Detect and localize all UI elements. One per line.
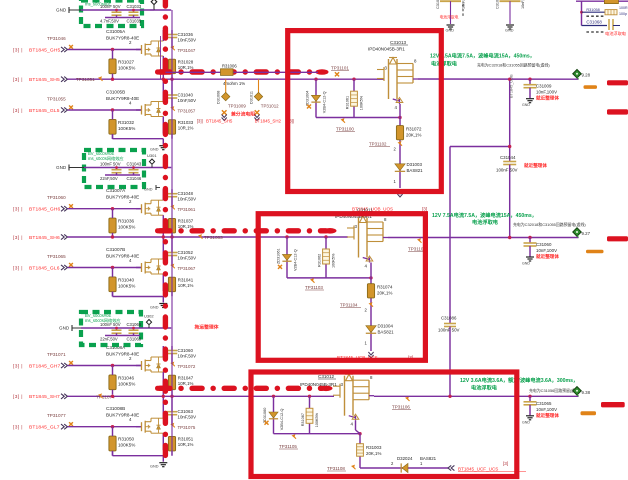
svg-text:V2B4-C12-Q: V2B4-C12-Q <box>294 249 298 271</box>
svg-text:TP31072: TP31072 <box>178 364 196 369</box>
input port chevron BT1845_GH5 <box>61 47 67 52</box>
resistor R31037 <box>168 218 193 233</box>
svg-text:9.27: 9.27 <box>582 231 591 236</box>
transistor C31008B BUK7Y9R8-40E <box>136 418 163 433</box>
svg-text:R31027: R31027 <box>118 60 135 65</box>
net label BT1845_SH6 <box>13 235 60 241</box>
svg-text:ZD31004: ZD31004 <box>306 91 310 107</box>
net label BT1845_GL7 <box>13 425 60 431</box>
wire R31051 to gnd rail <box>171 451 173 456</box>
label C31005A <box>106 29 139 45</box>
wire R31032 stub <box>112 110 114 139</box>
svg-text:TP31100: TP31100 <box>336 127 354 132</box>
svg-text:BUK7Y9R8-40E: BUK7Y9R8-40E <box>106 352 139 357</box>
svg-text:100nF 50V: 100nF 50V <box>100 4 121 9</box>
port marker top <box>151 0 157 10</box>
diode D31004 <box>366 324 394 335</box>
svg-text:[3]|: [3]| <box>197 119 203 124</box>
cap value labels <box>100 19 142 24</box>
test point TP31072 <box>170 362 196 369</box>
svg-text:TP31055: TP31055 <box>47 97 66 102</box>
ground C31065 <box>522 416 534 425</box>
orange highlight bar <box>586 250 604 254</box>
ground C31009 <box>522 99 534 108</box>
test point marker TP31077 <box>69 422 73 426</box>
svg-text:TP31061: TP31061 <box>178 207 196 212</box>
svg-text:10nF,100V: 10nF,100V <box>536 90 557 95</box>
svg-text:C31086: C31086 <box>441 316 457 321</box>
wire FET3 out <box>374 395 579 397</box>
svg-text:BT1845_UCF_UCS: BT1845_UCF_UCS <box>458 467 498 472</box>
svg-text:12V 7.5A电流7.5A，波峰电流15A，450ms，: 12V 7.5A电流7.5A，波峰电流15A，450ms， <box>430 52 535 60</box>
transistor C31005B BUK7Y9R8-40E <box>136 102 163 117</box>
svg-text:C31082: C31082 <box>436 0 440 9</box>
svg-text:10R,1%: 10R,1% <box>178 283 194 288</box>
cap value labels <box>100 337 142 342</box>
test point marker TP31065 <box>69 263 73 267</box>
svg-text:BUK7Y9R8-40E: BUK7Y9R8-40E <box>106 96 139 101</box>
svg-text:电池浮取电: 电池浮取电 <box>605 30 627 37</box>
test point TP31067 <box>170 264 196 271</box>
wire top rail <box>81 327 171 329</box>
svg-text:就近整理体: 就近整理体 <box>524 162 547 169</box>
svg-text:BT1845_GL6: BT1845_GL6 <box>29 265 60 271</box>
svg-text:C31052: C31052 <box>178 250 194 255</box>
svg-text:[3] |: [3] | <box>13 207 23 213</box>
net label BT1845_GH6 <box>13 207 61 213</box>
svg-text:BT1845_GL5: BT1845_GL5 <box>29 108 60 114</box>
svg-text:C31048: C31048 <box>178 191 194 196</box>
svg-text:10R,1%: 10R,1% <box>178 381 194 386</box>
svg-text:TP31077: TP31077 <box>47 413 66 418</box>
svg-text:TP31065: TP31065 <box>47 254 66 259</box>
port chevron box3 out <box>448 465 454 470</box>
ground C31082 <box>446 25 455 33</box>
resistor R31027 <box>109 59 135 74</box>
red note filter <box>605 30 627 37</box>
resistor R31041 <box>168 277 193 292</box>
label C31012 <box>300 374 337 387</box>
resistor R31032 <box>109 119 135 134</box>
input port chevron BT1845_GL6 <box>61 265 67 270</box>
wire BT1845_SH7 <box>68 395 335 397</box>
svg-text:兼分流电阻: 兼分流电阻 <box>230 111 255 118</box>
resistor R31033 <box>168 120 193 135</box>
svg-text:100K5%: 100K5% <box>118 443 135 448</box>
net label BT1845_GL5 <box>13 108 60 114</box>
test point TP31105 <box>279 434 298 449</box>
svg-text:[3]: [3] <box>422 207 427 212</box>
wire filter low <box>582 25 608 27</box>
svg-text:100p: 100p <box>619 12 627 16</box>
junction gate BT1845_GH7 <box>111 364 114 367</box>
svg-text:C31080: C31080 <box>496 0 500 9</box>
svg-text:20K,1%: 20K,1% <box>366 451 381 456</box>
wire FET2 out <box>388 237 579 239</box>
capacitor C31063 <box>167 397 196 425</box>
svg-text:TP31009: TP31009 <box>228 104 246 109</box>
wire R31028 to SH <box>171 74 173 79</box>
red highlight corner blob <box>155 386 169 391</box>
test point TP31061 <box>170 205 196 212</box>
capacitor C31044 <box>496 155 518 238</box>
test point TP31107 <box>408 238 427 251</box>
capacitor C31066 <box>100 322 122 336</box>
svg-text:BAS821: BAS821 <box>378 330 395 335</box>
resistor R31028 <box>168 59 193 73</box>
svg-text:BUK7Y9R8-40E: BUK7Y9R8-40E <box>106 36 139 41</box>
wire box2 lower <box>287 277 371 279</box>
junction dots <box>115 166 135 169</box>
red highlight end blob <box>320 386 333 392</box>
pin 1 label D32024 <box>420 461 423 466</box>
svg-text:D32024: D32024 <box>397 456 413 461</box>
svg-text:10nF,50V: 10nF,50V <box>178 256 197 261</box>
svg-text:C31060: C31060 <box>536 242 552 247</box>
svg-text:10nF,50V: 10nF,50V <box>178 38 197 43</box>
red note shunt <box>230 111 255 118</box>
input port chevron BT1845_GL5 <box>61 107 67 112</box>
svg-text:4.7nF,50V: 4.7nF,50V <box>100 19 119 24</box>
svg-text:D31008: D31008 <box>217 91 221 104</box>
wire gate BT1845_GH7 <box>68 365 142 367</box>
wire R31033 to gnd rail <box>171 134 173 139</box>
resistor R31061 <box>346 79 364 117</box>
svg-text:R31050: R31050 <box>118 437 135 442</box>
wire drain C31005B <box>162 81 164 102</box>
resistor R31051 <box>168 436 193 451</box>
pin 8 label U2 <box>384 217 387 222</box>
svg-text:BAS821: BAS821 <box>420 456 437 461</box>
junction filter <box>580 11 583 14</box>
green note line2 <box>431 60 458 68</box>
wire R31027 stub <box>112 50 114 79</box>
test point label TP31063 <box>204 235 223 240</box>
capacitor C31052 <box>167 238 196 266</box>
svg-text:TP31106: TP31106 <box>392 405 410 410</box>
resistor R31072 <box>396 126 422 140</box>
test point label TP31077 <box>47 413 66 418</box>
svg-text:R31047: R31047 <box>178 376 194 381</box>
dashed note b <box>586 31 605 33</box>
resistor R31074 <box>367 284 393 298</box>
test point TP31075 <box>170 423 196 430</box>
svg-text:10nF,50V: 10nF,50V <box>178 98 197 103</box>
red highlight vertical bus <box>163 0 168 462</box>
svg-text:TP31105: TP31105 <box>279 444 297 449</box>
svg-text:GND: GND <box>522 262 530 266</box>
svg-text:TP31063: TP31063 <box>204 235 223 240</box>
svg-text:BT1845_SH2: BT1845_SH2 <box>255 119 282 124</box>
svg-text:C31009: C31009 <box>536 84 552 89</box>
svg-text:[3] |: [3] | <box>13 108 23 114</box>
wire source C31008A <box>162 372 164 395</box>
capacitor C31060 <box>167 346 196 364</box>
capacitor C31048 <box>167 189 196 207</box>
label C31068 <box>586 19 602 24</box>
svg-text:R31028: R31028 <box>178 60 194 65</box>
svg-text:GND: GND <box>150 306 159 310</box>
wire box1 lower <box>316 117 400 119</box>
junction box2 lower <box>369 276 372 279</box>
zener ZD31060 <box>263 396 284 433</box>
diode D31003 <box>395 162 423 173</box>
svg-text:[3] |: [3] | <box>13 363 23 369</box>
resistor R31046 <box>109 375 135 390</box>
resistor R31036 <box>109 218 135 233</box>
capacitor C31043 <box>100 161 122 175</box>
wire box3 lower <box>274 433 361 435</box>
wire drain C31008B <box>162 397 164 418</box>
pin 1 label <box>394 179 397 184</box>
test point label TP31071 <box>47 352 66 357</box>
svg-text:C31068: C31068 <box>586 19 602 24</box>
transistor U2 IPD40N045B-3R1 <box>347 216 388 263</box>
wire source C31005B <box>162 117 164 134</box>
red note C31060 <box>536 253 559 260</box>
test point label TP31051 <box>76 77 95 82</box>
svg-text:[3] |: [3] | <box>13 47 23 53</box>
svg-text:GND: GND <box>56 165 67 170</box>
wire top rail <box>84 167 171 169</box>
wire gate BT1845_GL6 <box>68 267 142 269</box>
test point TP31106 <box>392 396 411 409</box>
label 100R <box>619 6 628 10</box>
svg-text:C31013: C31013 <box>390 40 407 45</box>
svg-text:GND: GND <box>522 420 530 424</box>
svg-text:9.38: 9.38 <box>582 390 591 395</box>
test point TP31104 <box>340 302 373 307</box>
orange highlight bar <box>581 411 597 415</box>
port 9.38 <box>573 387 591 397</box>
svg-text:D31004: D31004 <box>378 324 394 329</box>
port 9.27 <box>573 228 591 238</box>
resistor R31076 <box>582 10 618 15</box>
ground C31060 <box>522 257 534 266</box>
svg-text:[3] |: [3] | <box>13 394 23 400</box>
transistor C31005A BUK7Y9R8-40E <box>136 41 163 56</box>
net label BT1845_SH5 <box>13 77 60 83</box>
resistor R31062 <box>318 237 336 278</box>
wire bus vertical v2 <box>160 36 162 79</box>
wire bottom rail <box>105 335 140 337</box>
svg-text:电池浮取电: 电池浮取电 <box>440 14 459 19</box>
capacitor C31082 <box>436 0 466 24</box>
pin 3 label U2 <box>355 224 358 229</box>
junction gate BT1845_GH6 <box>111 207 114 210</box>
label U301 <box>147 153 157 168</box>
wire vertical node B <box>449 147 451 324</box>
svg-text:C31033: C31033 <box>127 4 142 9</box>
svg-text:U302: U302 <box>144 314 154 319</box>
svg-text:100nF 50V: 100nF 50V <box>496 168 518 173</box>
net label BT1845_GH7 <box>13 363 61 369</box>
resistor R31006 shunt <box>221 64 246 87</box>
note line3 <box>529 388 581 393</box>
port 9.28 <box>573 69 591 79</box>
svg-text:TP31103: TP31103 <box>305 285 323 290</box>
junction gate BT1845_GH5 <box>111 48 114 51</box>
wire drain C31007A <box>162 189 164 200</box>
svg-text:100nF 50V: 100nF 50V <box>438 328 460 333</box>
green note text <box>85 2 112 7</box>
wire gnd rail <box>113 451 173 462</box>
red highlight box 3 <box>251 372 517 477</box>
svg-text:C31065: C31065 <box>536 401 552 406</box>
red highlight line <box>160 69 318 74</box>
test point label TP31055 <box>47 97 66 102</box>
svg-text:C31005A: C31005A <box>106 29 126 34</box>
capacitor C31069 <box>127 322 142 336</box>
svg-text:D31011: D31011 <box>249 91 253 104</box>
junction box3 lower <box>358 432 361 435</box>
red highlight bar <box>607 236 628 241</box>
wire source C31008B <box>162 433 164 450</box>
red note top cap <box>440 4 464 19</box>
svg-text:TP31108: TP31108 <box>327 466 345 471</box>
junction node B bottom <box>448 395 451 398</box>
wire BT1845_SH6 <box>68 236 349 238</box>
junction pair <box>272 395 311 398</box>
ground <box>150 463 167 469</box>
svg-text:BT1845_GH5: BT1845_GH5 <box>29 47 61 53</box>
pin 2 label D32024 <box>391 461 394 466</box>
wire corner node <box>450 145 511 148</box>
junction pair <box>285 235 327 238</box>
wire bottom rail <box>105 174 140 176</box>
red note C31044 <box>524 162 547 169</box>
wire top rail <box>81 9 171 11</box>
svg-text:R31061: R31061 <box>346 96 350 109</box>
svg-text:BT1845_SH5: BT1845_SH5 <box>206 119 233 124</box>
svg-text:9.28: 9.28 <box>582 73 591 78</box>
svg-text:GND: GND <box>59 326 70 331</box>
wire gnd rail <box>113 292 173 303</box>
GND label <box>59 325 81 331</box>
svg-text:[3] |: [3] | <box>13 77 23 83</box>
net label BT1845_UOB_UOS <box>352 207 427 212</box>
svg-text:TP31067: TP31067 <box>178 266 196 271</box>
net label BT1845_GH5 <box>13 47 61 53</box>
green note line1 <box>460 376 578 384</box>
ground C31080 <box>505 25 514 33</box>
svg-text:GND: GND <box>150 465 159 469</box>
svg-text:GND: GND <box>522 103 530 107</box>
wire drain chain <box>399 104 401 188</box>
ground <box>150 304 167 310</box>
svg-text:C31069: C31069 <box>127 337 142 342</box>
svg-text:12V 7.5A电流7.5A，波峰电流15A，450ms，: 12V 7.5A电流7.5A，波峰电流15A，450ms， <box>432 211 537 219</box>
junction gate BT1845_GL5 <box>111 108 114 111</box>
red highlight corner blob <box>155 69 169 74</box>
svg-text:电池浮取电: 电池浮取电 <box>472 218 499 226</box>
wire gate BT1845_GH5 <box>68 49 142 51</box>
red highlight bar <box>607 80 628 85</box>
pin 4 label U2 <box>365 264 368 269</box>
port chevron box2 out <box>368 352 373 358</box>
resistor R31040 <box>109 277 135 292</box>
wire R31046 stub <box>112 366 114 395</box>
svg-text:100K5%: 100K5% <box>332 253 336 268</box>
test point marker TP31060 <box>69 204 73 208</box>
red note C31009 <box>536 95 559 102</box>
junction dots <box>115 327 135 330</box>
label sense net SH2 <box>255 119 294 124</box>
net label BT1845_UCF_UCS <box>458 461 526 472</box>
svg-text:C31007B: C31007B <box>106 247 125 252</box>
wire R31037 to SH <box>171 233 173 238</box>
junction BT1845_SH6 a <box>111 235 114 238</box>
svg-text:R31046: R31046 <box>118 376 135 381</box>
svg-text:R31033: R31033 <box>178 120 194 125</box>
svg-text:电池浮取电: 电池浮取电 <box>471 384 498 392</box>
red highlight corner blob <box>155 228 169 233</box>
svg-text:GND: GND <box>150 148 159 152</box>
svg-text:BT1845_GH6: BT1845_GH6 <box>29 207 61 213</box>
svg-text:[3] |: [3] | <box>13 425 23 431</box>
label 100p <box>619 12 627 16</box>
resistor R31047 <box>168 375 193 390</box>
svg-text:C31044: C31044 <box>500 155 516 160</box>
note line3 <box>477 63 550 68</box>
test point label TP31060 <box>47 195 66 200</box>
wire joint top <box>150 9 154 11</box>
wire vertical node A <box>509 79 511 161</box>
green note text <box>85 313 121 324</box>
wire drain C31007B <box>162 238 164 259</box>
input port chevron BT1845_GH7 <box>61 363 67 368</box>
svg-text:就近整理体: 就近整理体 <box>536 95 559 102</box>
wire bus vertical right <box>171 10 173 456</box>
dashed note a <box>586 15 605 17</box>
svg-text:R31062: R31062 <box>318 254 322 267</box>
wire box3 bottom <box>360 467 448 469</box>
svg-text:10nF,100V: 10nF,100V <box>536 248 557 253</box>
wire R31040 stub <box>112 268 114 297</box>
svg-text:10R,1%: 10R,1% <box>178 65 194 70</box>
wire BT1845_SH5 <box>68 78 385 80</box>
diode D32024 <box>397 456 437 473</box>
svg-text:BT1845_UOB: BT1845_UOB <box>510 74 514 98</box>
svg-text:就近整理体: 就近整理体 <box>536 412 559 419</box>
svg-text:100K5%: 100K5% <box>360 95 364 110</box>
svg-text:C31036: C31036 <box>178 32 194 37</box>
junction dots <box>115 9 135 12</box>
red highlight box 2 <box>258 214 425 361</box>
transistor C31008A BUK7Y9R8-40E <box>136 357 163 372</box>
red highlight bar <box>607 109 628 114</box>
capacitor C31009 <box>524 78 558 99</box>
label C31008A <box>106 345 139 361</box>
test point TP31057 <box>170 106 196 113</box>
red highlight line <box>160 386 322 391</box>
svg-text:D31003: D31003 <box>407 162 423 167</box>
input port chevron BT1845_GL7 <box>61 424 67 429</box>
transistor C31007B BUK7Y9R8-40E <box>136 259 163 274</box>
GND label <box>56 165 84 171</box>
svg-text:GND: GND <box>144 188 153 192</box>
svg-text:10nF,50V: 10nF,50V <box>178 415 197 420</box>
capacitor C31036 <box>167 30 196 48</box>
svg-text:TP31057: TP31057 <box>178 109 196 114</box>
green note line1 <box>430 52 535 60</box>
svg-text:R31036: R31036 <box>118 219 135 224</box>
ground <box>150 146 167 152</box>
svg-text:BT1845_SH6: BT1845_SH6 <box>29 235 60 241</box>
test point TP31103 <box>305 278 324 290</box>
capacitor C31086 <box>438 316 460 397</box>
resistor R31003 <box>357 444 382 457</box>
